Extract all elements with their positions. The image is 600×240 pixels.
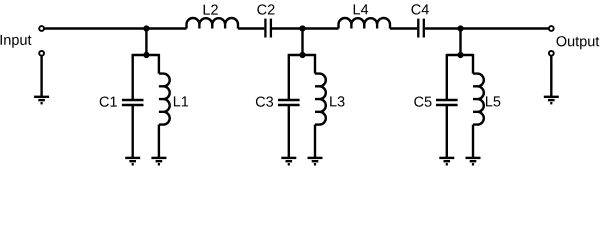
capacitor C1 <box>122 100 144 105</box>
capacitor C3 <box>278 100 300 105</box>
label C5 <box>414 96 431 106</box>
wire input to L2 <box>45 27 187 29</box>
ground (output) <box>544 97 559 103</box>
ground (C1) <box>125 158 140 164</box>
wire L1 top lead <box>158 54 160 74</box>
label C2 <box>257 4 274 14</box>
ground (input) <box>34 97 49 103</box>
capacitor C2 <box>265 19 271 38</box>
wire branch bar 3 <box>447 54 473 56</box>
inductor L5 <box>473 74 484 125</box>
inductor L2 <box>187 18 239 29</box>
wire branch bar 1 <box>133 54 159 56</box>
node B junction dot <box>299 25 305 31</box>
wire C3 top lead <box>288 54 290 100</box>
node B lower junction dot <box>299 52 305 58</box>
label Input <box>1 35 32 48</box>
inductor L1 <box>159 74 170 125</box>
wire L3 top lead <box>314 54 316 74</box>
output terminal <box>549 26 554 31</box>
input terminal <box>39 26 44 31</box>
label L1 <box>174 96 188 106</box>
wire L2 to C2 <box>238 27 264 29</box>
ground (C5) <box>439 158 454 164</box>
capacitor C4 <box>418 19 424 38</box>
wire C1 bottom lead <box>131 105 133 158</box>
wire L5 bottom lead <box>472 125 474 158</box>
wire L4 to C4 <box>390 27 417 29</box>
wire C2 to L4 <box>272 27 339 29</box>
wire node B down <box>301 29 303 56</box>
node A lower junction dot <box>143 52 149 58</box>
label L4 <box>354 4 369 14</box>
label C4 <box>412 4 429 14</box>
node C lower junction dot <box>457 52 463 58</box>
wire L5 top lead <box>472 54 474 74</box>
ground (L1) <box>151 158 166 164</box>
capacitor C5 <box>436 100 458 105</box>
ground (L5) <box>466 158 481 164</box>
label C3 <box>256 96 273 106</box>
wire node A down <box>145 29 147 56</box>
output ground terminal <box>549 51 554 56</box>
wire L1 bottom lead <box>158 125 160 158</box>
ground (C3) <box>281 158 296 164</box>
wire C5 top lead <box>446 54 448 100</box>
wire C3 bottom lead <box>288 105 290 158</box>
label L2 <box>204 4 218 14</box>
wire node C down <box>459 29 461 56</box>
wire L3 bottom lead <box>314 125 316 158</box>
inductor L4 <box>339 18 391 29</box>
input ground terminal <box>39 51 44 56</box>
node A junction dot <box>143 25 149 31</box>
node C junction dot <box>457 25 463 31</box>
inductor L3 <box>315 74 326 125</box>
label L5 <box>486 96 500 106</box>
ground (L3) <box>308 158 323 164</box>
wire input ground lead <box>40 56 42 97</box>
wire C1 top lead <box>131 54 133 100</box>
label Output <box>557 36 600 49</box>
label C1 <box>100 96 117 106</box>
label L3 <box>330 96 344 106</box>
wire output ground lead <box>550 56 552 97</box>
wire branch bar 2 <box>289 54 315 56</box>
wire C5 bottom lead <box>446 105 448 158</box>
wire C4 to output <box>425 27 548 29</box>
